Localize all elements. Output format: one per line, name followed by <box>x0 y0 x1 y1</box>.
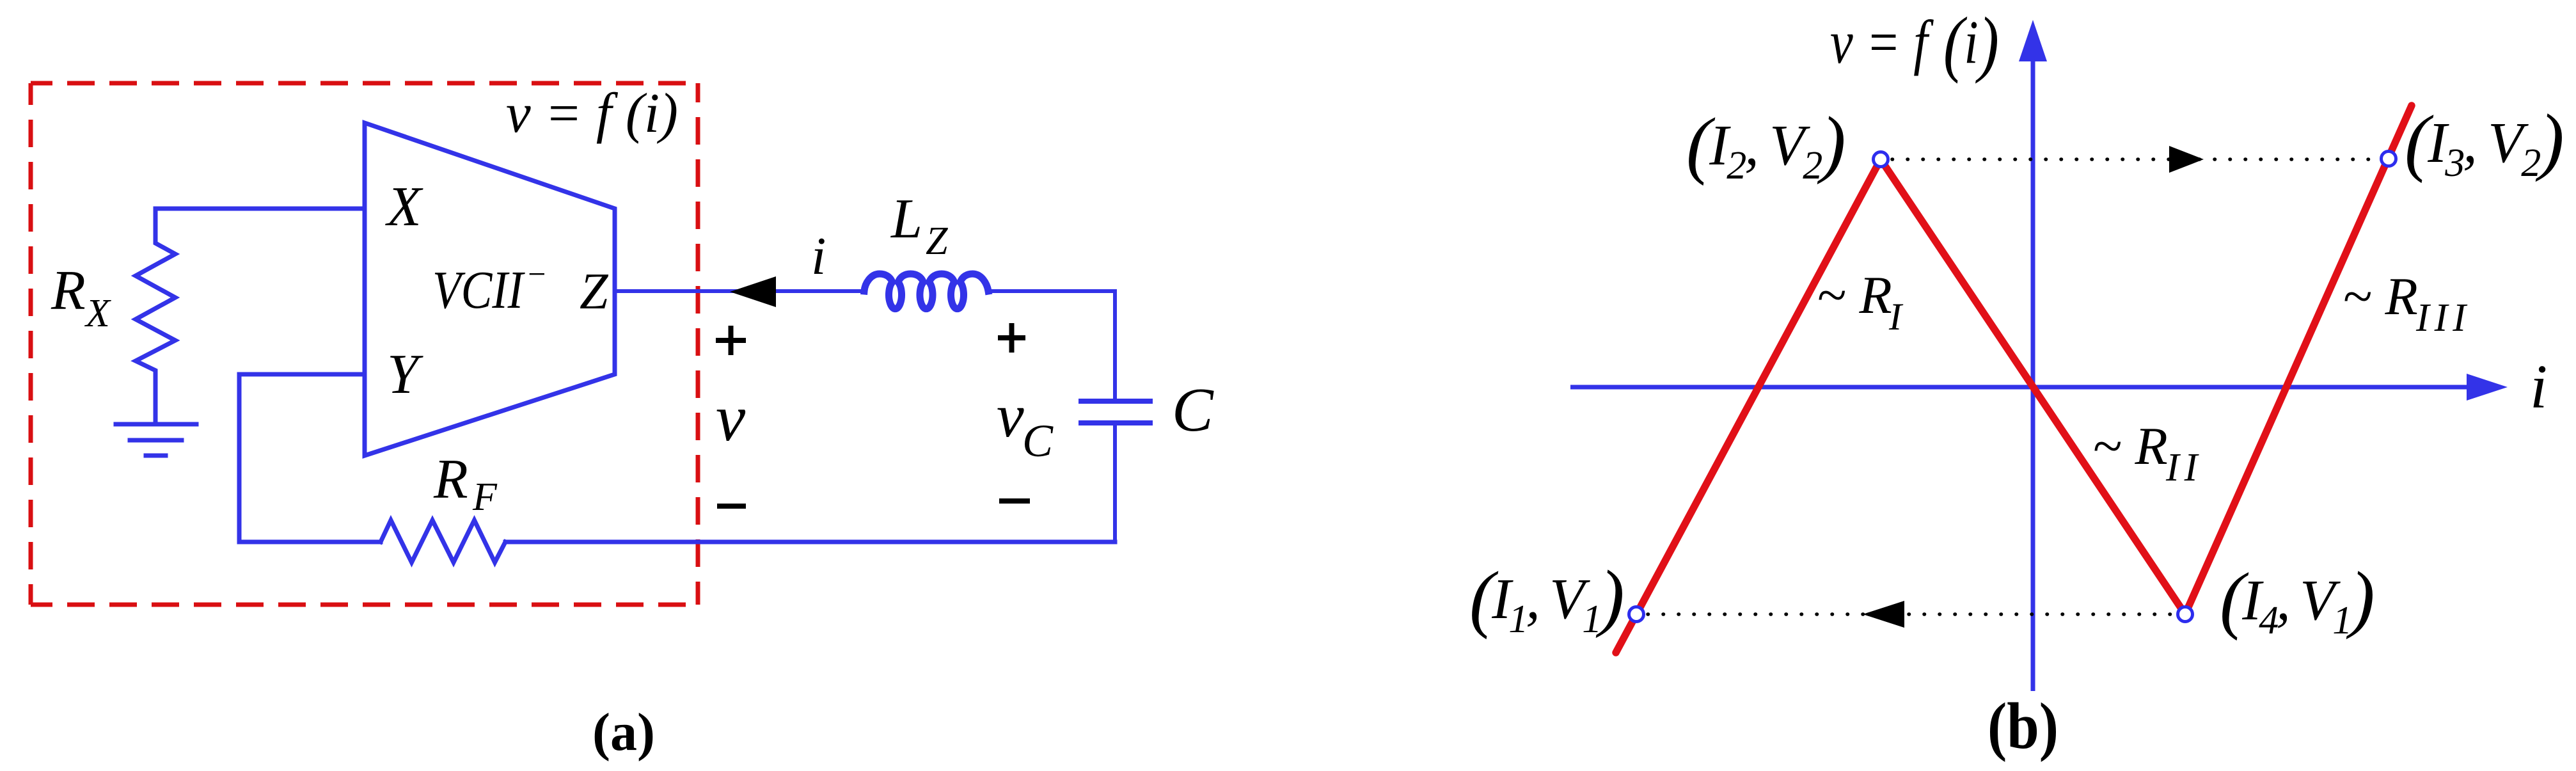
svg-text:~ R: ~ R <box>2343 267 2418 326</box>
svg-text:i: i <box>2530 353 2547 422</box>
svg-text:X: X <box>84 292 111 335</box>
piecewise-linear v-i curve <box>1616 106 2412 653</box>
wire Z output <box>615 289 864 293</box>
svg-text:(I2, V2): (I2, V2) <box>1686 101 1844 187</box>
svg-text:II: II <box>2165 446 2202 489</box>
dotted transition I2V2 to I3V2 <box>1892 157 2378 161</box>
node I1V1 <box>1629 607 1644 622</box>
svg-text:Y: Y <box>387 344 423 406</box>
node I4V1 <box>2178 607 2193 622</box>
svg-text:L: L <box>890 188 922 250</box>
resistor RF <box>381 520 505 562</box>
current arrow i <box>730 276 776 307</box>
wire inductor to capacitor <box>988 291 1115 399</box>
wire capacitor to bottom net <box>1113 425 1117 542</box>
svg-text:F: F <box>472 475 498 519</box>
wire bottom net <box>505 540 1115 544</box>
ground <box>116 424 196 456</box>
node I2V2 <box>1874 152 1888 167</box>
label + v - left <box>716 326 746 506</box>
arrowhead right on dotted <box>2169 146 2204 173</box>
i axis arrowhead <box>2467 374 2508 401</box>
svg-text:v = f (i): v = f (i) <box>1830 3 1999 84</box>
svg-text:(I1, V1): (I1, V1) <box>1469 555 1622 641</box>
svg-text:Z: Z <box>580 264 609 320</box>
op-amp U1 VCII- trapezoid body <box>365 123 615 456</box>
svg-text:R: R <box>433 449 468 511</box>
svg-text:v: v <box>997 381 1024 450</box>
inductor LZ coil <box>864 274 988 309</box>
svg-text:C: C <box>1022 415 1054 466</box>
arrowhead left on dotted <box>1863 601 1904 628</box>
svg-text:(I3, V2): (I3, V2) <box>2405 99 2563 185</box>
svg-text:I: I <box>1888 296 1904 338</box>
v axis <box>2031 58 2035 691</box>
resistor RX <box>136 209 175 424</box>
svg-text:X: X <box>385 176 423 238</box>
wire Y input <box>239 374 381 542</box>
capacitor C plates <box>1081 401 1150 423</box>
i axis <box>1570 385 2468 390</box>
svg-text:(I4, V1): (I4, V1) <box>2220 556 2373 642</box>
svg-text:R: R <box>51 260 86 322</box>
dashed equivalent-inductor box <box>31 83 698 605</box>
svg-text:−: − <box>526 256 548 292</box>
node I3V2 <box>2382 152 2396 166</box>
svg-text:v: v <box>716 381 746 455</box>
svg-text:III: III <box>2415 296 2471 340</box>
svg-text:(b): (b) <box>1987 690 2058 763</box>
svg-text:~ R: ~ R <box>2092 417 2168 476</box>
svg-text:v = f (i): v = f (i) <box>506 83 678 145</box>
v axis arrowhead <box>2019 20 2047 61</box>
svg-text:(a): (a) <box>592 703 655 762</box>
svg-text:i: i <box>811 227 826 286</box>
wire X input <box>155 207 365 211</box>
svg-text:~ R: ~ R <box>1817 266 1892 325</box>
svg-text:C: C <box>1172 376 1214 444</box>
svg-text:Z: Z <box>926 219 948 263</box>
dotted transition I4V1 to I1V1 <box>1648 612 2174 616</box>
svg-text:VCII: VCII <box>432 260 525 320</box>
label + vC - right <box>998 323 1030 501</box>
